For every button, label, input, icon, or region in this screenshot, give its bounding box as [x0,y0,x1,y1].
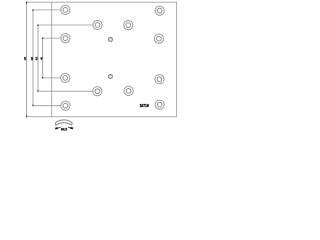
svg-text:96: 96 [30,56,34,60]
lining cross-section symbol [56,120,73,125]
plate bottom edge extension [27,116,52,118]
svg-text:19716: 19716 [140,103,150,108]
curvature arc right arrowhead [70,127,73,129]
curvature dimension arc [56,127,73,129]
dimension line 3 top arrow [37,24,39,26]
dimension line 1 top arrow [26,1,28,3]
dimension line 4 top arrow [42,37,44,39]
dimension line 2 top arrow [32,9,34,11]
rivet hole D [61,101,70,110]
small pin hole M2 [109,75,113,79]
rivet hole F [124,21,133,30]
dimension line 1 bottom arrow [26,116,28,118]
leader wire to hole A [33,9,61,11]
rivet hole I [155,6,164,15]
svg-text:66: 66 [35,56,39,60]
rivet hole K [155,75,164,84]
leader wire to hole G [38,90,93,92]
dimension line 4 (inner hole rows) [42,38,44,78]
plate top edge extension [27,1,52,3]
curvature arc left arrowhead [55,127,58,129]
leader wire to hole E [38,24,93,26]
rivet hole L [155,100,164,109]
leader wire to hole D [33,105,61,107]
dimension line 2 bottom arrow [32,105,34,107]
rivet hole E [93,20,102,29]
dimension line 1 (overall height) [26,2,28,117]
rivet hole H [124,86,133,95]
dimension line 3 bottom arrow [37,90,39,92]
rivet hole G [93,87,102,96]
svg-text:180: 180 [23,57,27,61]
plate outline [52,2,177,117]
leader wire to hole C [43,77,61,79]
dimension line 2 (outer hole rows) [32,10,34,106]
text gap mask [61,126,68,131]
svg-text:64.5: 64.5 [61,128,67,132]
leader wire to hole B [43,37,61,39]
dimension line 4 bottom arrow [42,77,44,79]
rivet hole C [61,73,70,82]
small pin hole M1 [109,38,113,42]
rivet hole J [154,34,163,43]
rivet hole B [61,34,70,43]
svg-text:40: 40 [40,57,44,60]
rivet hole A [61,5,70,14]
dimension line 3 (middle hole rows) [37,25,39,91]
